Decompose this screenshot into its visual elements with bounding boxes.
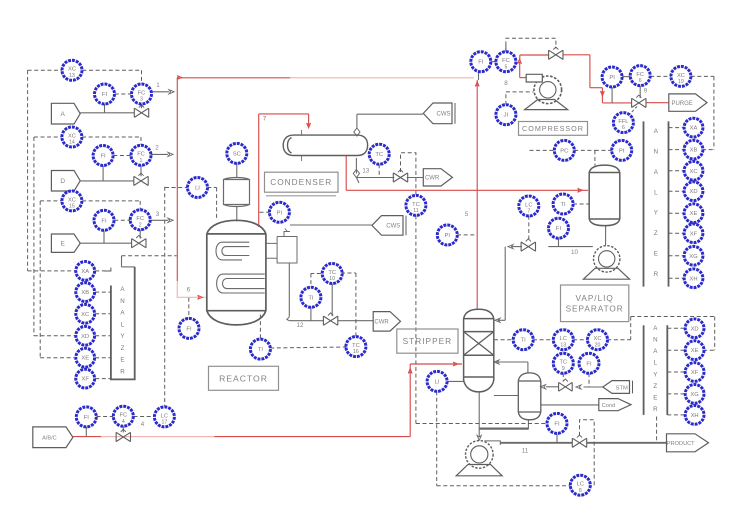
svg-text:FI: FI	[102, 92, 108, 98]
dash riser to XB	[702, 149, 714, 151]
svg-text:6: 6	[639, 78, 642, 84]
link FI-FC recycle	[491, 61, 497, 63]
svg-text:6: 6	[187, 287, 191, 294]
purge PI stem	[611, 87, 613, 103]
instrument XG product analysis	[685, 385, 704, 404]
utility arrow CWS condenser	[423, 103, 455, 124]
svg-text:XA: XA	[690, 126, 698, 132]
svg-text:13: 13	[560, 342, 566, 348]
instrument XA purge analysis	[684, 118, 703, 137]
svg-text:XG: XG	[689, 254, 698, 260]
instrument FI A/B/C feed	[76, 407, 96, 427]
outlet arrow PURGE	[669, 94, 707, 111]
condenser CWR valve to arrow	[407, 177, 423, 179]
instrument TI stripper	[513, 330, 533, 350]
dash FI reactor feed stem	[188, 298, 190, 319]
dash purge analyzer XF	[669, 232, 684, 234]
svg-text:N: N	[653, 337, 657, 344]
flow arrow recycle junction curl	[518, 59, 522, 64]
dash XC14 to FC1	[82, 136, 141, 138]
instrument XC-13 A feed composition	[62, 60, 82, 80]
svg-text:XC: XC	[594, 336, 602, 342]
dash product analyzer XF	[667, 371, 684, 373]
svg-text:XC: XC	[68, 133, 76, 139]
dash JI riser	[505, 92, 507, 105]
svg-text:D: D	[60, 178, 65, 185]
svg-text:XC: XC	[81, 312, 89, 318]
svg-text:FI: FI	[556, 226, 562, 232]
FC6 stem to purge valve	[639, 85, 641, 98]
vertical text product analyzer	[653, 325, 658, 413]
dash FC4-LC17	[134, 416, 155, 418]
stripper reboiler vapor return	[496, 361, 528, 363]
separator vessel	[589, 165, 620, 226]
svg-text:JI: JI	[504, 113, 509, 119]
red stream 7 horizontal	[259, 113, 309, 115]
stream 10 line valve to corner	[512, 246, 522, 248]
dash FC2 drop	[139, 201, 141, 210]
valve compressor bypass valve	[549, 47, 563, 59]
svg-text:XE: XE	[81, 356, 89, 362]
instrument FC-6 purge flow	[630, 66, 650, 86]
svg-text:15: 15	[69, 204, 75, 210]
red discharge jog	[590, 87, 603, 89]
svg-text:CONDENSER: CONDENSER	[270, 177, 332, 187]
dash TCcond stem	[378, 164, 380, 176]
label CONDENSER	[265, 172, 339, 192]
svg-text:TI: TI	[258, 347, 264, 353]
instrument LC-17 reactor level ctrl	[154, 407, 174, 427]
dash purge analyzer XE	[669, 212, 684, 214]
svg-text:STM: STM	[616, 385, 628, 391]
svg-text:CWR: CWR	[374, 320, 389, 326]
dash left analyzer XF	[95, 378, 111, 380]
product line 2	[587, 442, 667, 444]
flow arrow steam arrow into reboiler	[540, 385, 545, 389]
svg-text:LC: LC	[161, 413, 168, 419]
red bypass valve to corner	[563, 54, 590, 56]
dash crossover drop to XE	[714, 317, 716, 351]
svg-text:14: 14	[69, 140, 75, 146]
svg-text:1: 1	[156, 82, 160, 89]
svg-text:XB: XB	[690, 148, 698, 154]
svg-text:XH: XH	[691, 413, 699, 419]
instrument TC-9 stripper temp	[553, 353, 573, 373]
condensate line	[541, 404, 599, 406]
instrument LI reactor level	[188, 178, 208, 198]
red condenser outlet drop	[345, 156, 347, 191]
flow arrow E feed arrow into header	[168, 218, 173, 222]
reboiler bottom stem	[527, 420, 529, 429]
svg-text:XC: XC	[689, 169, 697, 175]
dash FI-FC E	[114, 219, 130, 221]
instrument FI recycle	[471, 52, 491, 72]
FI stem A/B/C feed	[85, 427, 87, 437]
red A/B/C feed faded	[101, 436, 215, 438]
svg-text:PI: PI	[619, 148, 625, 154]
svg-text:7: 7	[527, 209, 530, 215]
dash analyzer crossover	[631, 316, 715, 318]
valve stem E	[139, 229, 141, 238]
dash TC16 to TC10	[341, 272, 356, 274]
dash left analyzer XA	[95, 270, 111, 272]
dash TC10 to TI vert	[310, 274, 312, 288]
recycle FI stem	[478, 71, 480, 80]
instrument PC separator pressure	[554, 140, 574, 160]
svg-text:N: N	[654, 148, 658, 155]
dash product analyzer XG	[667, 393, 684, 395]
svg-text:A/B/C: A/B/C	[42, 436, 57, 442]
dash FFL to purge valve	[629, 107, 637, 116]
flow arrow discharge arrow down	[600, 91, 604, 96]
svg-text:CWS: CWS	[386, 224, 400, 230]
utility arrow CWS reactor	[372, 216, 406, 236]
instrument SC agitator speed	[227, 143, 247, 163]
red stripper overhead riser stream 5	[476, 80, 478, 310]
instrument FC-1 D feed flow	[131, 145, 151, 165]
svg-text:FI: FI	[186, 326, 192, 332]
svg-text:4: 4	[141, 421, 145, 428]
valve E feed valve	[132, 235, 146, 247]
valve reactor CW valve	[323, 313, 337, 325]
instrument FI steam flow	[579, 353, 599, 373]
svg-text:LC: LC	[577, 482, 584, 488]
svg-text:A: A	[61, 111, 66, 118]
stripper pump	[456, 441, 502, 476]
svg-text:8: 8	[504, 80, 508, 87]
dash PI recycle tap	[457, 234, 476, 236]
stream 10 drop to stripper	[504, 247, 506, 321]
flow arrow stream 4 arrow into stripper	[453, 362, 458, 366]
E feed line	[80, 242, 131, 244]
A feed line to header	[151, 91, 170, 93]
flow arrow stream 10 arrow into stripper	[495, 318, 500, 322]
valve stem A	[141, 104, 143, 109]
FI product stem	[556, 433, 558, 443]
dash LI to LC8	[437, 485, 571, 487]
dash TC10 to TI horiz	[311, 273, 321, 275]
dash XC13 left	[28, 69, 62, 71]
svg-text:20: 20	[595, 342, 601, 348]
svg-text:TC: TC	[352, 343, 360, 349]
dash product analyzer XE	[667, 349, 684, 351]
feed arrow D	[51, 171, 80, 192]
svg-text:E: E	[653, 394, 657, 401]
purge analyzer bar left	[643, 121, 645, 286]
stripper to reboiler line	[494, 395, 518, 397]
condenser top nozzle diamond	[354, 128, 360, 136]
flow arrow header corner curl	[177, 76, 182, 80]
purge analyzer bar right	[668, 121, 670, 286]
dash TC11 to FI	[416, 423, 547, 425]
svg-text:FC: FC	[136, 216, 144, 222]
flow arrow stream 7 arrow into condenser	[307, 123, 311, 128]
dash to XE	[40, 357, 74, 359]
svg-text:1: 1	[140, 158, 143, 164]
A feed line	[80, 112, 134, 114]
dash LI stripper drop	[436, 391, 438, 486]
svg-text:LI: LI	[195, 186, 200, 192]
dash LI reactor to riser	[165, 187, 188, 189]
instrument FI E feed	[94, 210, 114, 230]
instrument TI reactor CW return	[301, 287, 321, 307]
dash FI-FC ABC	[97, 416, 114, 418]
condenser left tick	[301, 156, 303, 162]
dash product sample	[656, 417, 658, 443]
svg-text:FI: FI	[101, 218, 107, 224]
svg-text:13: 13	[69, 73, 75, 79]
D feed line to header	[150, 153, 169, 155]
svg-text:5: 5	[504, 64, 507, 70]
left analyzer bar	[111, 267, 135, 380]
condenser label underline	[266, 195, 336, 197]
dash TI-LC stripper	[533, 339, 554, 341]
svg-text:FI: FI	[478, 60, 484, 66]
dash product analyzer XD	[667, 327, 684, 329]
red A/B/C feed main	[215, 436, 411, 438]
dash PC drop to separator	[594, 150, 596, 165]
dash product analyzer XH	[667, 414, 684, 416]
instrument LC-7 separator level	[519, 196, 539, 216]
svg-text:R: R	[654, 271, 659, 278]
svg-text:VAP/LIQ: VAP/LIQ	[576, 294, 614, 303]
analyser sample step1	[121, 256, 123, 267]
svg-text:FFL: FFL	[618, 119, 628, 125]
instrument FC-5 recycle flow	[496, 52, 516, 72]
svg-text:TC: TC	[375, 152, 383, 158]
dash XC15 left	[40, 200, 62, 202]
svg-text:FC: FC	[120, 413, 128, 419]
svg-text:16: 16	[353, 349, 359, 355]
dash XE right link	[703, 349, 715, 351]
product analyzer bar left	[643, 325, 645, 415]
dash XC14 left	[34, 136, 62, 138]
svg-text:LC: LC	[560, 336, 567, 342]
dash PC right	[574, 149, 595, 151]
red bypass up	[519, 55, 521, 61]
svg-text:Z: Z	[121, 345, 125, 352]
valve product valve	[572, 435, 586, 447]
label VAP/LIQ SEPARATOR	[561, 285, 629, 322]
dash purge analyzer XH	[669, 277, 684, 279]
red purge line to valve	[602, 102, 631, 104]
instrument FI separator underflow	[549, 218, 569, 238]
outlet arrow CWR reactor	[373, 312, 400, 332]
svg-text:L: L	[121, 321, 125, 328]
red feed header riser	[176, 77, 178, 281]
svg-text:XH: XH	[689, 276, 697, 282]
FI stem E feed	[103, 230, 105, 243]
red connect to compressor inlet	[520, 77, 527, 79]
stripper vessel	[464, 309, 494, 392]
svg-text:17: 17	[162, 420, 168, 426]
svg-text:11: 11	[522, 448, 529, 455]
svg-text:19: 19	[678, 79, 684, 85]
instrument XA reactor feed analysis	[76, 262, 95, 281]
stripper pump discharge nozzle	[484, 441, 500, 445]
instrument XG purge analysis	[684, 246, 703, 265]
dash TI stripper left	[494, 339, 513, 341]
reboiler liquid line	[479, 428, 529, 430]
valve steam valve	[559, 379, 573, 391]
instrument TC-11 condenser CW ctrl	[406, 195, 426, 215]
instrument FI reactor feed	[179, 318, 199, 338]
instrument PI separator	[612, 140, 632, 160]
dash TC11 long riser	[415, 215, 417, 423]
instrument TI separator	[553, 194, 573, 214]
svg-text:Y: Y	[653, 371, 657, 378]
svg-text:XB: XB	[81, 290, 89, 296]
svg-text:SEPARATOR: SEPARATOR	[566, 304, 624, 313]
instrument FC-4 A/B/C feed flow	[113, 406, 133, 426]
svg-text:2: 2	[155, 145, 159, 152]
flow arrow reboiler return arrow	[494, 360, 499, 364]
flow arrow D feed arrow into header	[168, 152, 173, 156]
flow arrow stream 6 arrow into reactor	[198, 295, 203, 299]
red stream 7 drop to condenser	[308, 114, 310, 128]
svg-text:9: 9	[562, 366, 565, 372]
instrument XC reactor feed analysis	[76, 304, 95, 323]
condenser bottom nozzle diamond	[353, 170, 359, 178]
svg-text:R: R	[653, 406, 658, 413]
E feed line to header	[148, 219, 168, 221]
reboiler top stem	[527, 362, 529, 373]
svg-text:XF: XF	[691, 370, 699, 376]
vertical text left analyzer	[120, 286, 125, 376]
svg-text:LC: LC	[525, 202, 532, 208]
red A/B/C feed line	[73, 436, 101, 438]
svg-text:XD: XD	[691, 326, 699, 332]
red A/B/C riser	[409, 364, 411, 437]
svg-text:XE: XE	[690, 211, 698, 217]
instrument LC-13 stripper	[553, 330, 573, 350]
dash FI-FC A	[115, 93, 132, 95]
red recycle junction drop to compressor	[519, 61, 521, 77]
svg-text:XC: XC	[68, 197, 76, 203]
svg-text:5: 5	[465, 211, 469, 218]
instrument LC-8 stripper level ctrl	[570, 475, 590, 495]
condenser CWS line	[357, 113, 423, 115]
condenser CWR to valve	[356, 177, 394, 179]
instrument XD product analysis	[685, 319, 704, 338]
instrument FFL purge ratio	[613, 113, 633, 133]
analyser sample step2	[122, 266, 135, 268]
instrument XC-19 purge composition	[671, 66, 691, 86]
flow arrow steam flow arrow	[576, 385, 581, 389]
svg-text:8: 8	[579, 488, 582, 494]
svg-text:STRIPPER: STRIPPER	[403, 336, 453, 346]
reactor coil lower	[217, 274, 265, 293]
red purge valve to arrow	[646, 102, 669, 104]
reactor agitator	[224, 177, 250, 206]
dash XC15 to FC2	[82, 200, 140, 202]
valve condenser CW valve	[393, 170, 407, 182]
dash purge analyzer XC	[669, 170, 684, 172]
instrument TC-10 reactor CW ctrl	[322, 264, 342, 284]
red feed header faded segment	[290, 77, 474, 79]
svg-text:XC: XC	[68, 67, 76, 73]
svg-text:TI: TI	[561, 202, 567, 208]
svg-text:LI: LI	[435, 379, 440, 385]
outlet arrow Cond	[599, 399, 631, 411]
instrument XD purge analysis	[684, 182, 703, 201]
svg-text:CWR: CWR	[425, 176, 440, 182]
steam line valve to reboiler	[546, 386, 559, 388]
agitator shaft	[236, 207, 238, 222]
svg-text:10: 10	[571, 249, 578, 256]
svg-text:E: E	[654, 251, 658, 258]
dash E analyzer riser	[39, 201, 41, 358]
svg-text:XD: XD	[81, 334, 89, 340]
svg-text:2: 2	[139, 222, 142, 228]
FC5 top stub	[505, 45, 507, 52]
valve D feed valve	[134, 173, 148, 185]
dash FC3 drop	[141, 70, 143, 84]
dash purge analyzer XD	[669, 190, 684, 192]
condenser left tick top	[301, 130, 303, 135]
dash TC9 stem	[562, 373, 564, 381]
dash A analyzer riser	[27, 70, 29, 271]
dash to XD	[34, 335, 75, 337]
dash PC left	[530, 149, 555, 151]
instrument XH product analysis	[685, 406, 704, 425]
feed arrow A	[51, 103, 80, 124]
dash left analyzer XB	[95, 291, 111, 293]
dash TC16 riser	[355, 273, 357, 337]
svg-text:N: N	[120, 298, 124, 305]
dash condenser valve loop	[401, 153, 416, 196]
instrument PI purge	[602, 67, 622, 87]
dash LC17 riser	[164, 187, 166, 406]
dash purge analyzer XG	[669, 255, 684, 257]
stripper downcomer	[478, 392, 480, 437]
svg-text:REACTOR: REACTOR	[219, 373, 268, 383]
dash XC13 to FC3	[82, 69, 141, 71]
valve A feed valve	[134, 105, 148, 117]
label STRIPPER	[397, 329, 458, 353]
svg-text:FC: FC	[137, 152, 145, 158]
svg-text:PI: PI	[445, 233, 451, 239]
svg-text:PRODUCT: PRODUCT	[667, 441, 695, 447]
dash left analyzer XC	[95, 313, 111, 315]
svg-text:COMPRESSOR: COMPRESSOR	[522, 124, 584, 133]
dash PI reactor	[260, 211, 270, 213]
svg-text:PC: PC	[560, 148, 568, 154]
left analyzer top arrow	[104, 268, 111, 272]
instrument XD reactor feed analysis	[76, 326, 95, 345]
FI stream10 stem	[558, 238, 560, 247]
label REACTOR	[209, 366, 279, 390]
instrument FI A feed	[95, 84, 115, 104]
valve separator underflow valve	[521, 239, 535, 251]
link PI-FC purge	[622, 76, 631, 78]
condenser CWR line	[356, 178, 359, 184]
svg-text:XC: XC	[677, 73, 685, 79]
dash FI-FC D	[113, 155, 131, 157]
svg-text:PI: PI	[609, 75, 615, 81]
svg-text:SC: SC	[233, 151, 241, 157]
dash FI steam stem	[588, 373, 590, 387]
instrument JI compressor work	[496, 105, 516, 125]
condenser shell	[283, 135, 367, 155]
instrument XE purge analysis	[684, 204, 703, 223]
svg-text:R: R	[120, 369, 125, 376]
condenser CWR drop	[355, 158, 357, 174]
dash sample line to header	[122, 255, 177, 257]
reactor CW return valve to arrow	[338, 320, 373, 322]
svg-text:FI: FI	[101, 154, 107, 160]
reactor CW return elbow	[287, 317, 290, 321]
